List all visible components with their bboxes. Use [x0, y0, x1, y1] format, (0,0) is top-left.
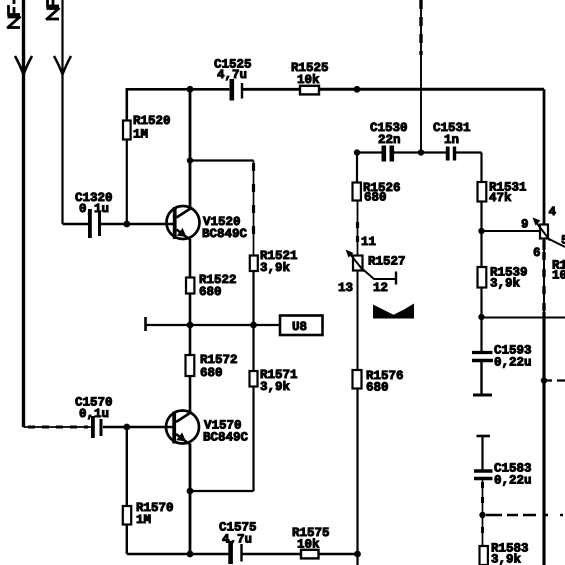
node NF- label [7, 0, 21, 28]
potentiometer R1527 [357, 201, 359, 256]
svg-text:680: 680 [366, 381, 389, 395]
resistor R1572 [186, 355, 195, 376]
wire R1527 to R1576 [357, 271, 359, 371]
svg-text:0,1u: 0,1u [79, 202, 109, 216]
node C1583 top bar [477, 435, 491, 438]
svg-text:680: 680 [199, 285, 222, 299]
node pin12 terminal tick [395, 272, 397, 285]
wire top rail y=89 [127, 89, 230, 120]
wire NF-right input line [61, 0, 63, 224]
resistor R1522 [186, 278, 194, 294]
svg-text:R1520: R1520 [133, 114, 171, 128]
wire bottom rail y=554 [127, 553, 229, 556]
svg-text:1n: 1n [444, 133, 459, 147]
junction dot base/R1520 [123, 221, 130, 228]
svg-text:10k: 10k [297, 73, 320, 87]
junction dot emitter/R1571 rail [187, 488, 194, 495]
capacitor C1320 [88, 209, 92, 238]
wire R1522 to R1572 [189, 294, 192, 356]
junction dot R1539/C1593 [478, 314, 484, 320]
wire dash-dot stub y=515 [486, 514, 563, 516]
svg-text:6: 6 [533, 246, 541, 260]
capacitor C1583 [474, 469, 493, 473]
svg-text:3,9k: 3,9k [260, 261, 291, 275]
capacitor C1530 [382, 146, 387, 162]
resistor R1526 [356, 153, 358, 183]
resistor R1521 [250, 256, 258, 272]
svg-text:5: 5 [561, 234, 565, 248]
svg-text:3,9k: 3,9k [260, 380, 291, 394]
junction dot R1531/pot wiper rail [478, 228, 484, 234]
node NF-right arrow [54, 56, 71, 75]
node bowtie mark [373, 304, 414, 319]
transistor V1570 [166, 411, 199, 444]
resistor R1520 [123, 121, 131, 140]
resistor R1570 [126, 427, 128, 506]
svg-text:BC849C: BC849C [203, 431, 249, 445]
svg-text:0,22u: 0,22u [494, 474, 532, 488]
svg-text:0,22u: 0,22u [494, 356, 532, 370]
wire base rail y=224 [63, 223, 90, 225]
svg-text:R1527: R1527 [368, 255, 406, 269]
resistor R1576 [353, 370, 362, 389]
node NF-left arrow [15, 56, 32, 75]
resistor R1525 [300, 86, 319, 95]
resistor R1583 [480, 546, 488, 565]
wire C1593 to end bar [480, 361, 482, 395]
wire R1520 to base node [126, 140, 128, 225]
wire C1530/C1531 rail y=152.5 [357, 151, 383, 153]
svg-text:BC849C: BC849C [202, 227, 248, 241]
node NF label [46, 0, 60, 20]
node U8 box [280, 316, 323, 336]
wire R1531 to pot rail [480, 202, 482, 268]
junction dot base/R1570 [123, 424, 130, 431]
wire base rail y=427 [24, 426, 92, 428]
svg-text:3,9k: 3,9k [490, 277, 521, 291]
junction dot top rail / V1520 collector [187, 86, 194, 93]
wire emitter to R1571 y=491 [190, 490, 254, 492]
wire V1570 emitter down [189, 444, 192, 555]
capacitor C1593 [472, 351, 493, 354]
svg-text:0,1u: 0,1u [79, 407, 109, 421]
junction dot rail/top wire [418, 149, 424, 155]
resistor R1575 [301, 550, 319, 559]
svg-text:4,7u: 4,7u [222, 533, 252, 547]
wire stub y=380.5 dashed [544, 379, 565, 381]
capacitor C1570 [91, 416, 95, 438]
svg-text:47k: 47k [489, 191, 512, 205]
wire V1520 collector branch [189, 89, 192, 207]
svg-text:12: 12 [373, 281, 388, 295]
svg-text:1M: 1M [136, 513, 151, 527]
junction dot bottom rail/R1576 line [354, 551, 361, 558]
svg-text:680: 680 [364, 191, 387, 205]
resistor R1571 [250, 371, 258, 387]
capacitor C1525 [230, 79, 235, 101]
svg-text:13: 13 [338, 281, 353, 295]
junction dot right rail stub [541, 377, 547, 383]
svg-text:U8: U8 [292, 320, 307, 334]
wire V1520 emitter to R1522 [189, 239, 192, 278]
node C1593 end bar [473, 394, 492, 397]
wire down to R1521 [253, 161, 255, 256]
junction dot top rail / R1526 branch [354, 86, 361, 93]
wire R1570 to bottom rail [126, 525, 128, 555]
svg-text:680: 680 [200, 366, 223, 380]
wire R1539 to C1593 node [480, 288, 482, 353]
junction dot emitter line / U8 rail [187, 322, 194, 329]
transistor V1520 [167, 206, 200, 239]
wire U8 rail y=325 [146, 324, 281, 326]
wire bar to C1583 [481, 436, 483, 471]
potentiometer R1540 [540, 225, 548, 239]
wire R1571 down leg [252, 387, 254, 492]
svg-text:3,9k: 3,9k [491, 553, 522, 565]
wire collector to R1521 y=160.5 [190, 159, 254, 161]
wire R1572 to V1570 collector [189, 376, 192, 412]
wire C1583 to R1583 [482, 479, 484, 547]
capacitor C1575 [228, 541, 233, 564]
svg-text:22n: 22n [378, 133, 401, 147]
svg-text:10k: 10k [297, 538, 320, 552]
svg-text:4: 4 [549, 205, 557, 219]
node U8 feed tick [144, 317, 147, 331]
wire right rail x=544 [543, 89, 546, 224]
junction dot C1583/R1583 node [479, 512, 485, 518]
resistor R1539 [478, 267, 487, 288]
junction dot R1521 line / U8 rail [250, 322, 257, 329]
svg-text:9: 9 [521, 218, 529, 232]
wire R1527 wiper to pin 12 terminal [363, 269, 396, 279]
wire R1540 wiper to pin 5 [548, 239, 565, 248]
svg-text:11: 11 [361, 235, 376, 249]
wire NF-left input line [22, 0, 25, 427]
junction dot collector/R1521 branch [187, 157, 193, 163]
wire R1576 down to bottom rail [356, 389, 358, 565]
svg-text:1M: 1M [133, 128, 148, 142]
svg-text:10: 10 [552, 269, 565, 283]
wire R1521 to R1571 [252, 271, 254, 371]
svg-text:4,7u: 4,7u [217, 68, 247, 82]
junction dot bottom rail/emitter [187, 551, 194, 558]
wire to pot R1540 wiper y=231 [482, 230, 541, 232]
wire vertical from top edge x=421 [420, 0, 422, 153]
capacitor C1531 [446, 147, 450, 161]
wire stub y=317 to right edge [482, 317, 565, 319]
junction dot rail/R1526 [354, 149, 360, 155]
svg-text:R1572: R1572 [200, 353, 238, 367]
resistor R1531 [480, 153, 482, 183]
